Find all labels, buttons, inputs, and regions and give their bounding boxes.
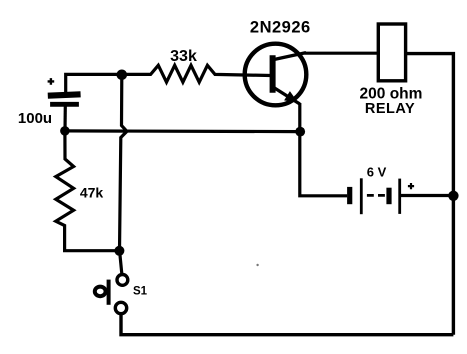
svg-text:47k: 47k <box>80 185 104 201</box>
svg-text:2N2926: 2N2926 <box>250 18 311 36</box>
svg-text:33k: 33k <box>170 48 197 65</box>
svg-text:RELAY: RELAY <box>365 101 415 117</box>
svg-text:6 V: 6 V <box>367 165 387 180</box>
svg-text:S1: S1 <box>133 286 148 298</box>
svg-text:100u: 100u <box>18 110 52 127</box>
svg-text:200 ohm: 200 ohm <box>360 85 423 102</box>
